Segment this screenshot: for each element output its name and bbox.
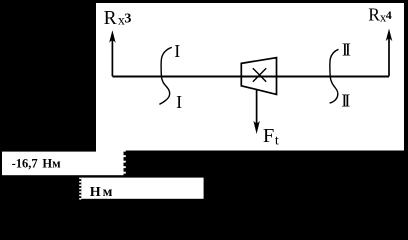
- svg-text:3: 3: [124, 12, 131, 27]
- svg-text:t: t: [275, 134, 279, 149]
- section line I (wavy): [159, 47, 171, 104]
- svg-text:R: R: [104, 8, 117, 29]
- reaction arrow Rx3 (head): [109, 30, 116, 43]
- svg-text:4: 4: [386, 8, 392, 22]
- svg-text:-16,7: -16,7: [12, 157, 38, 171]
- hatch ticks left edge of Нм box: [79, 178, 81, 200]
- reaction arrow Rx4 (shaft): [388, 37, 390, 76]
- white bridge between panel and box: [96, 148, 124, 153]
- svg-text:м: м: [103, 185, 113, 200]
- beam: [112, 76, 389, 78]
- hatch ticks right edge of -16,7 box: [124, 150, 126, 174]
- svg-text:I: I: [174, 41, 180, 61]
- main white panel: [96, 3, 404, 151]
- svg-text:Нм: Нм: [42, 156, 61, 170]
- reaction arrow Rx3 (shaft): [111, 39, 113, 76]
- X mark in gear: [253, 68, 266, 82]
- label Rx3: [104, 8, 132, 29]
- box -16,7 Нм: [2, 152, 124, 176]
- label Ft: [263, 125, 279, 149]
- force Ft arrow (head): [253, 121, 260, 134]
- bevel gear (trapezoid): [241, 58, 276, 95]
- svg-text:R: R: [368, 4, 380, 24]
- svg-text:Н: Н: [90, 185, 101, 200]
- box Нм: [81, 178, 203, 199]
- svg-text:F: F: [263, 125, 274, 147]
- reaction arrow Rx4 (head): [386, 29, 393, 42]
- svg-text:I: I: [176, 92, 182, 112]
- label Rx4: [368, 4, 391, 24]
- force Ft arrow (shaft): [256, 89, 258, 124]
- section line II (wavy): [330, 49, 339, 103]
